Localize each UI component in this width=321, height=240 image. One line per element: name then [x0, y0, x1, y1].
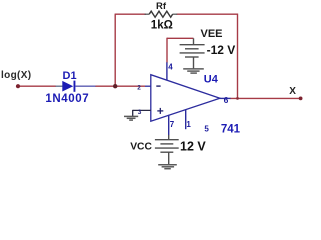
svg-text:12 V: 12 V	[180, 140, 206, 154]
svg-text:5: 5	[204, 124, 209, 133]
svg-text:1kΩ: 1kΩ	[151, 20, 173, 32]
svg-text:Rf: Rf	[156, 1, 167, 12]
svg-text:D1: D1	[63, 70, 77, 82]
svg-text:2: 2	[137, 85, 141, 92]
svg-text:VCC: VCC	[130, 141, 152, 152]
svg-text:U4: U4	[204, 74, 219, 86]
svg-text:7: 7	[170, 120, 175, 129]
svg-text:VEE: VEE	[201, 28, 223, 40]
svg-text:4: 4	[168, 63, 173, 72]
svg-text:1N4007: 1N4007	[45, 93, 89, 105]
svg-text:1: 1	[186, 120, 191, 129]
svg-text:log(X): log(X)	[1, 70, 31, 81]
svg-text:X: X	[289, 86, 296, 97]
svg-text:3: 3	[138, 109, 142, 116]
svg-text:741: 741	[221, 124, 241, 136]
svg-text:6: 6	[224, 95, 229, 105]
svg-text:-12 V: -12 V	[207, 43, 236, 57]
